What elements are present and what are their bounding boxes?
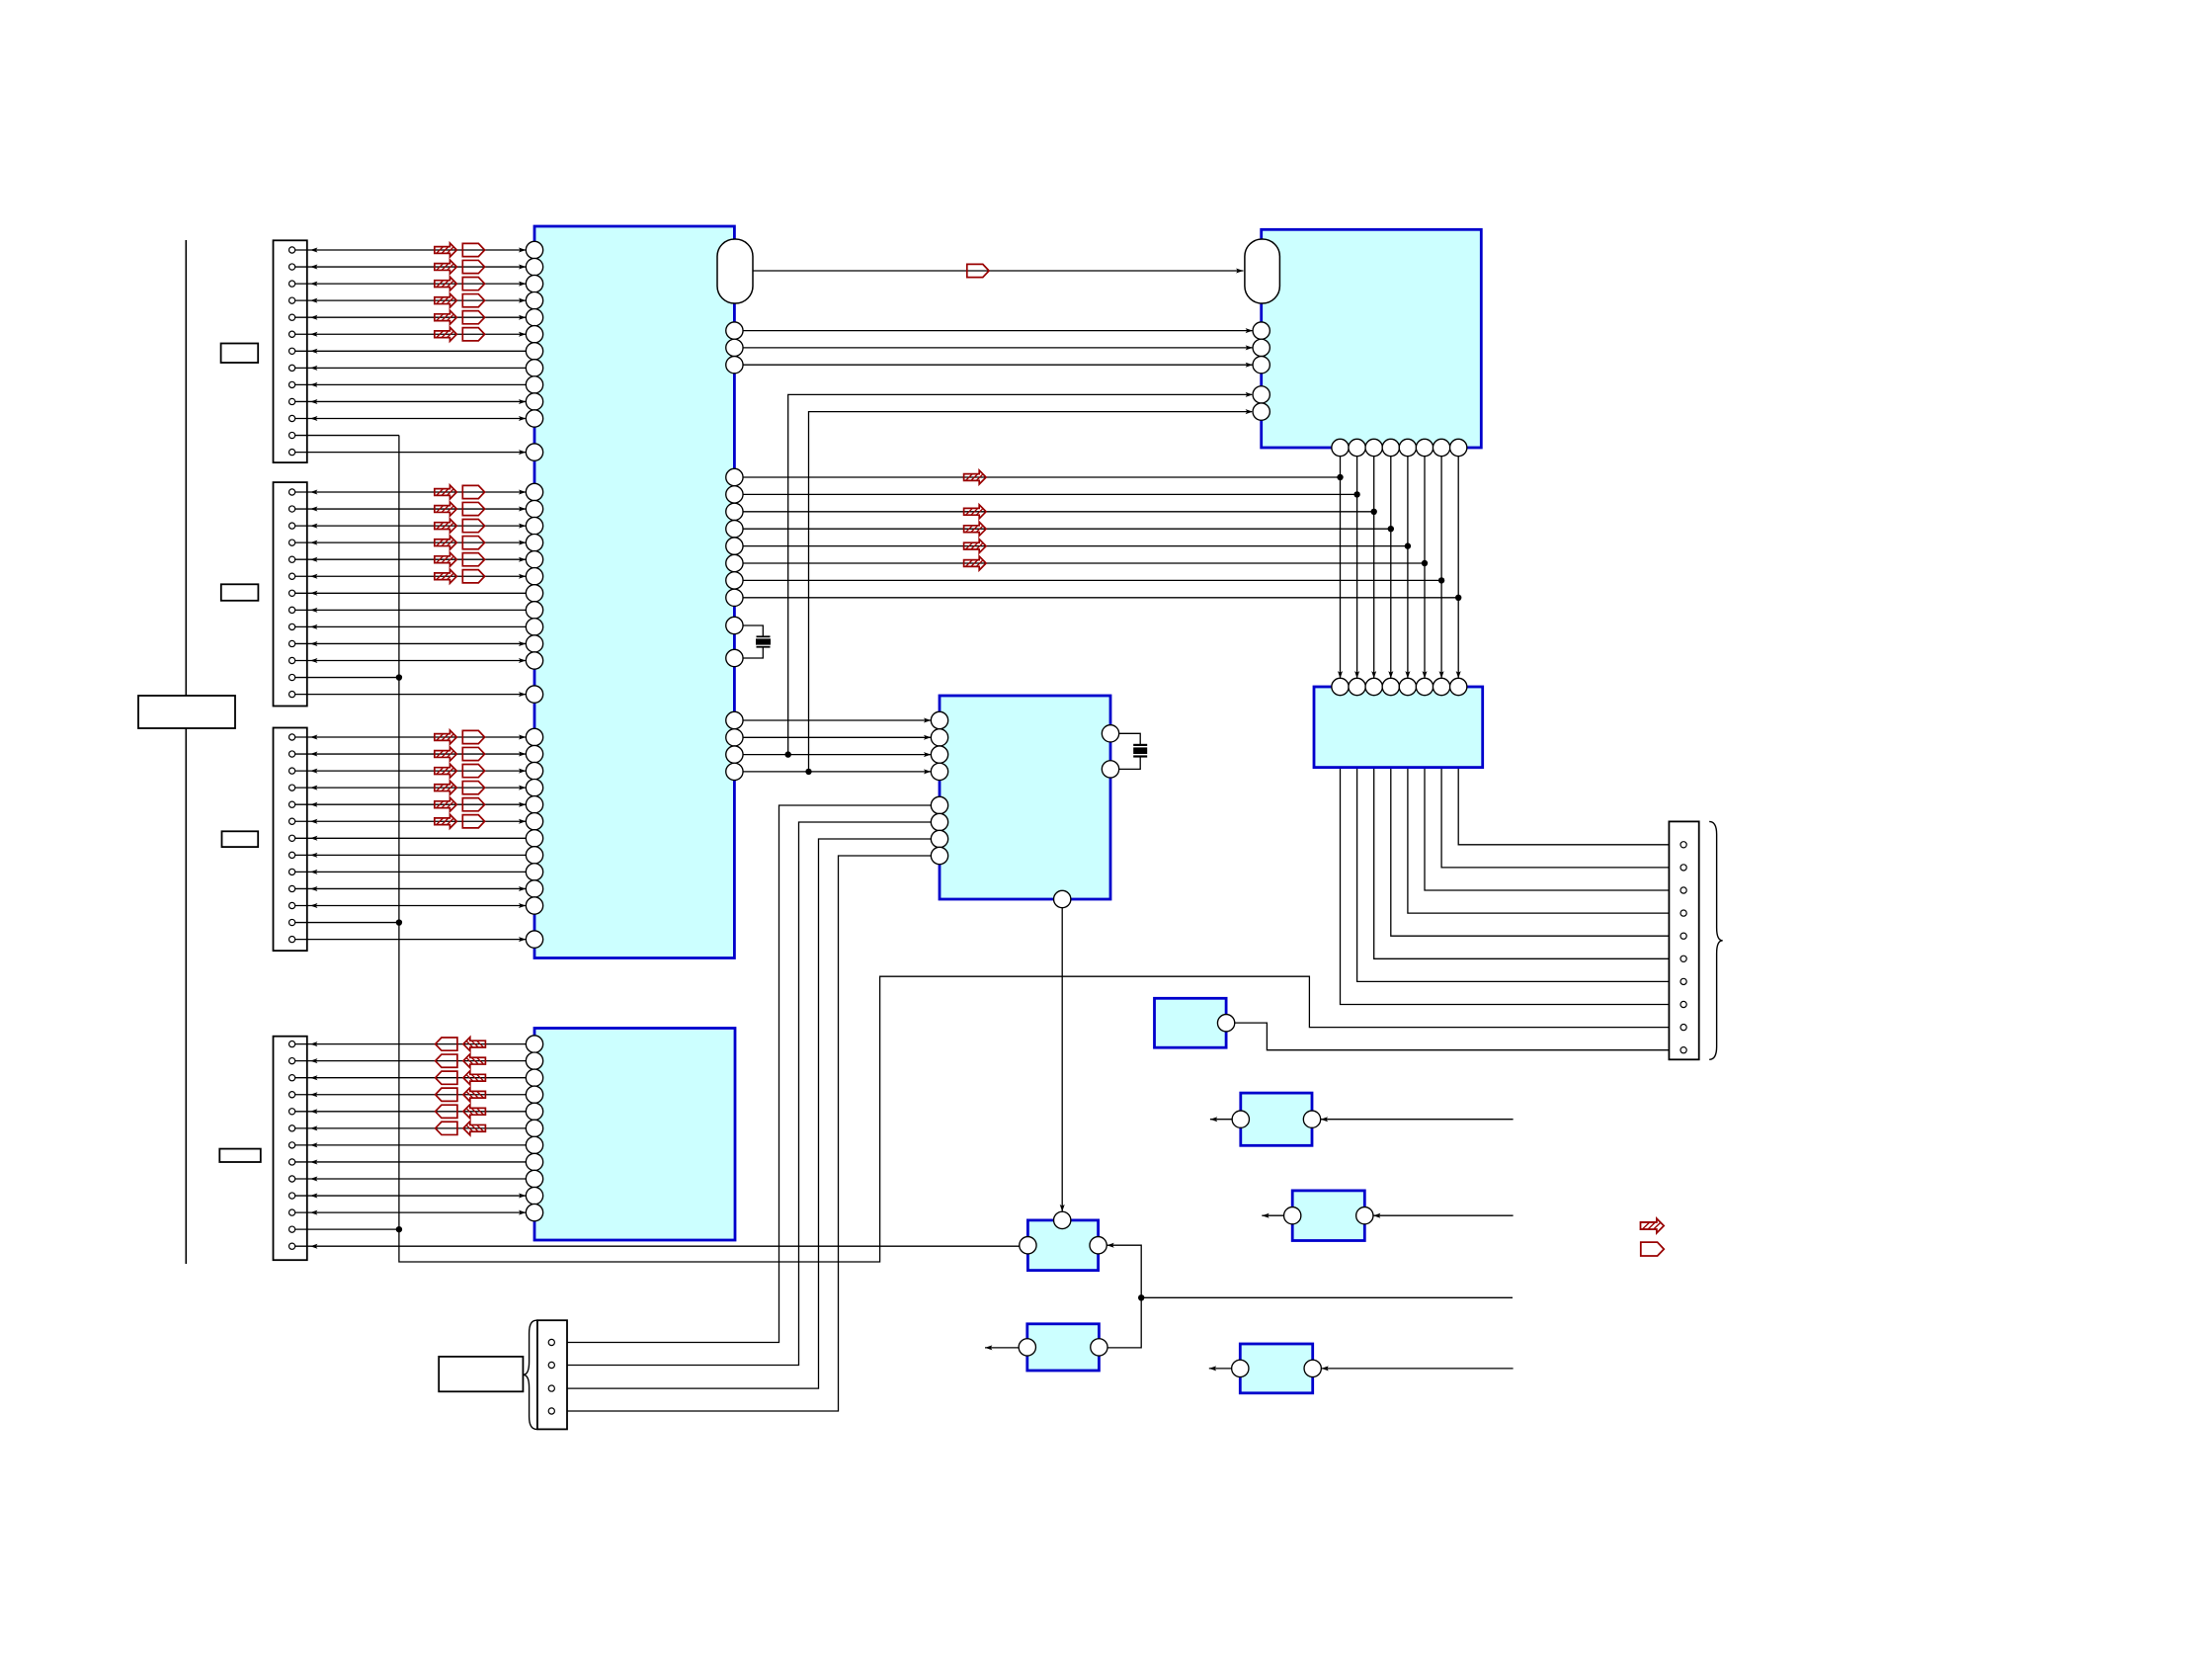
wire segment bus line 7 from IC1 [743,577,1444,583]
wire CN103 row 7 [295,836,527,841]
wire CN103 row 8 [295,853,527,858]
wire CN102 row 1 [295,490,527,495]
wire CN104 row 7 [295,1142,527,1147]
wire CN101 row 5 [295,315,527,320]
wire CN101 row 4 [295,298,527,303]
wire segment IC3 bottom pin 6 down to IC4 [1423,448,1428,679]
wire CN103 row 4 [295,786,527,790]
wire segment bus line 2 from IC1 [743,491,1360,497]
wire segment bus line 4 from IC1 [743,526,1394,532]
wire CN104 row 2 [295,1058,527,1063]
wire segment IC4 output 8 to CN105 pin 1 [1458,768,1680,845]
crystal X102 [1119,733,1148,769]
signal flag pair CN104 row 3 (mirrored) [436,1071,486,1085]
label box L3 [222,831,259,847]
wire IC1 to IC5 control line 1 [743,718,931,723]
wire CN103 row 3 [295,769,527,774]
wire segment IC3 bottom pin 2 down to IC4 [1354,448,1359,679]
wire key-scan common bus [399,436,1680,1262]
wire CN102 row 10 [295,641,527,646]
wire CN102 row 7 [295,591,527,596]
wire block F output left [1209,1366,1232,1371]
wire oscillator line IC1 capsule to IC3 capsule [753,269,1244,274]
wire IC1 to IC5 control line 4 [743,769,931,774]
signal flow arrow on bus line 6 [964,556,987,570]
wire CN101 row 8 [295,366,527,371]
wire CN103 row 5 [295,802,527,807]
wire segment bus line 1 from IC1 [743,474,1344,480]
connector CN106 [537,1320,567,1429]
wire data line 2 IC1 to IC3 [743,345,1253,350]
wire segment IC3 bottom pin 3 down to IC4 [1371,448,1376,679]
brace left of CN106 [524,1320,537,1429]
wire CN102 row 2 [295,507,527,512]
wire CN104 row 6 [295,1125,527,1130]
wire CN103 row 10 [295,886,527,891]
wire CN102 row 6 [295,574,527,579]
wire encoder line 4 CN106 to IC5 [554,856,931,1411]
legend signal flag [1641,1242,1664,1256]
wire segment IC4 output 7 to CN105 pin 2 [1441,768,1680,868]
wire CN101 row 9 [295,382,527,387]
wire segment IC4 output 1 to CN105 pin 8 [1341,768,1681,1005]
wire segment bus line 6 from IC1 [743,560,1428,566]
wire segment bus line 8 from IC1 [743,595,1461,601]
wire segment IC4 output 6 to CN105 pin 3 [1425,768,1680,890]
signal flag pair CN102 row 5 [435,552,485,566]
wire CN101 row 12 [295,435,399,437]
wire CN101 row 13 [295,450,527,455]
wire CN102 row 8 [295,608,527,613]
wire CN102 row 4 [295,541,527,545]
wire CN104 row 8 [295,1159,527,1164]
wire CN103 row 9 [295,870,527,874]
IC U105 key controller [931,696,1118,908]
wire CN102 row 13 [295,692,527,697]
wire CN102 row 12 [295,674,402,680]
wire net IC5 row4 junction up to IC3 pin 5 [805,409,1253,775]
signal flag pair CN101 row 5 [435,310,485,324]
label box L2 [221,584,259,601]
IC U102 display driver [526,1029,735,1241]
wire block D output left [1262,1213,1283,1218]
IC U101 system control micro [526,226,743,958]
wire CN104 row 12 [295,1226,402,1232]
label box L4 [219,1149,260,1162]
wire block E output left [985,1345,1019,1350]
wire CN104 row 3 [295,1075,527,1080]
wire CN101 row 6 [295,332,527,337]
wire segment IC3 bottom pin 5 down to IC4 [1405,448,1410,679]
connector CN105 [1669,821,1698,1059]
wire CN101 row 3 [295,282,527,287]
signal flag pair CN102 row 3 [435,519,485,533]
wire CN103 row 6 [295,819,527,824]
signal flag pair CN104 row 6 (mirrored) [436,1122,486,1135]
wire CN102 row 5 [295,557,527,562]
wire CN104 row 13 [295,1244,1020,1249]
legend signal flow arrow [1641,1218,1665,1233]
wire segment IC3 bottom pin 1 down to IC4 [1338,448,1343,679]
connector CN102 [274,482,307,706]
port capsule on U103 [1245,239,1280,303]
IC U104 buffer [1314,678,1483,767]
signal flag pair CN101 row 4 [435,293,485,307]
connector CN101 [274,240,307,462]
wire CN104 row 5 [295,1109,527,1114]
signal flow arrow on bus line 1 [964,470,987,484]
wire block B output left [1210,1117,1232,1122]
signal flag pair CN103 row 1 [435,730,485,744]
wire CN103 row 1 [295,735,527,740]
wire CN104 row 4 [295,1092,527,1097]
signal flag pair CN101 row 3 [435,277,485,291]
wire IC1 to IC5 control line 3 [743,752,931,757]
block B filter [1232,1093,1321,1145]
brace right of CN105 [1709,821,1723,1059]
signal flag pair CN104 row 4 (mirrored) [436,1088,486,1102]
wire segment bus line 3 from IC1 [743,509,1377,515]
signal flag pair CN104 row 1 (mirrored) [436,1038,486,1051]
wire data line 3 IC1 to IC3 [743,363,1253,368]
wire block D input from right [1373,1213,1514,1218]
signal flag pair CN103 row 3 [435,764,485,778]
signal flag pair CN102 row 4 [435,536,485,549]
wire CN103 row 2 [295,752,527,757]
signal flag pair CN104 row 2 (mirrored) [436,1054,486,1068]
wire CN102 row 9 [295,624,527,629]
wire segment bus line 5 from IC1 [743,542,1411,548]
signal flag pair CN101 row 2 [435,260,485,274]
signal flag pair CN104 row 5 (mirrored) [436,1105,486,1119]
signal flag pair CN102 row 6 [435,569,485,583]
wire CN103 row 12 [295,919,402,925]
wire CN102 row 11 [295,658,527,663]
wire segment IC4 output 2 to CN105 pin 7 [1357,768,1680,982]
wire CN103 row 11 [295,903,527,908]
wire segment IC4 output 4 to CN105 pin 5 [1391,768,1680,937]
signal flow arrow on bus line 3 [964,505,987,519]
wire CN103 row 13 [295,937,527,942]
wire CN104 row 11 [295,1210,527,1215]
wire encoder line 3 CN106 to IC5 [554,839,931,1388]
wire CN101 row 2 [295,265,527,270]
IC U103 [1253,229,1481,456]
signal flow arrow on bus line 5 [964,540,987,553]
potentiometer RV101 body [439,1357,523,1391]
wire block F input from right [1321,1366,1513,1371]
signal flag pair CN101 row 1 [435,243,485,257]
wire CN104 row 1 [295,1041,527,1046]
wire segment IC3 bottom pin 8 down to IC4 [1456,448,1461,679]
wire encoder line 1 CN106 to IC5 [554,805,931,1343]
signal flag pair CN103 row 4 [435,781,485,794]
signal flag pair CN101 row 6 [435,327,485,341]
wire CN101 row 11 [295,416,527,421]
wire left vertical bus (to other board) [185,240,187,1264]
wire data line 1 IC1 to IC3 [743,328,1253,333]
label box L1 [221,344,259,364]
signal flag pair CN103 row 2 [435,747,485,761]
wire block A to CN105 pin 10 [1235,1023,1680,1050]
signal flag pair CN102 row 2 [435,502,485,516]
wire CN102 row 3 [295,524,527,529]
connector CN104 [274,1037,307,1261]
signal flag on oscillator line [967,264,989,277]
signal flag pair CN103 row 6 [435,814,485,828]
wire CN101 row 7 [295,349,527,354]
wire CN104 row 10 [295,1194,527,1199]
block F filter [1232,1344,1322,1393]
wire IC5 output down to block C [1060,908,1065,1212]
wire segment IC4 output 5 to CN105 pin 4 [1408,768,1680,914]
wire encoder line 2 CN106 to IC5 [554,822,931,1366]
signal flag pair CN102 row 1 [435,485,485,499]
wire IC1 to IC5 control line 2 [743,735,931,740]
wire CN101 row 10 [295,399,527,404]
wire block C right pin net [1106,1243,1513,1348]
crystal X101 [743,625,771,658]
wire CN104 row 9 [295,1177,527,1182]
port capsule on U101 [717,239,753,303]
block A reset [1155,998,1235,1047]
wire segment IC4 output 3 to CN105 pin 6 [1374,768,1680,959]
block E filter [1019,1324,1107,1371]
block D filter [1284,1191,1373,1241]
wire block B input from right [1321,1117,1514,1122]
connector CN103 [274,728,307,952]
node wide junction box on left bus [138,696,235,728]
wire segment IC3 bottom pin 7 down to IC4 [1439,448,1444,679]
wire segment IC3 bottom pin 4 down to IC4 [1388,448,1393,679]
block C filter [1020,1211,1107,1270]
wire net IC5 row3 junction up to IC3 pin 4 [785,392,1254,758]
signal flag pair CN103 row 5 [435,797,485,811]
signal flow arrow on bus line 4 [964,522,987,536]
wire CN101 row 1 [295,248,527,253]
